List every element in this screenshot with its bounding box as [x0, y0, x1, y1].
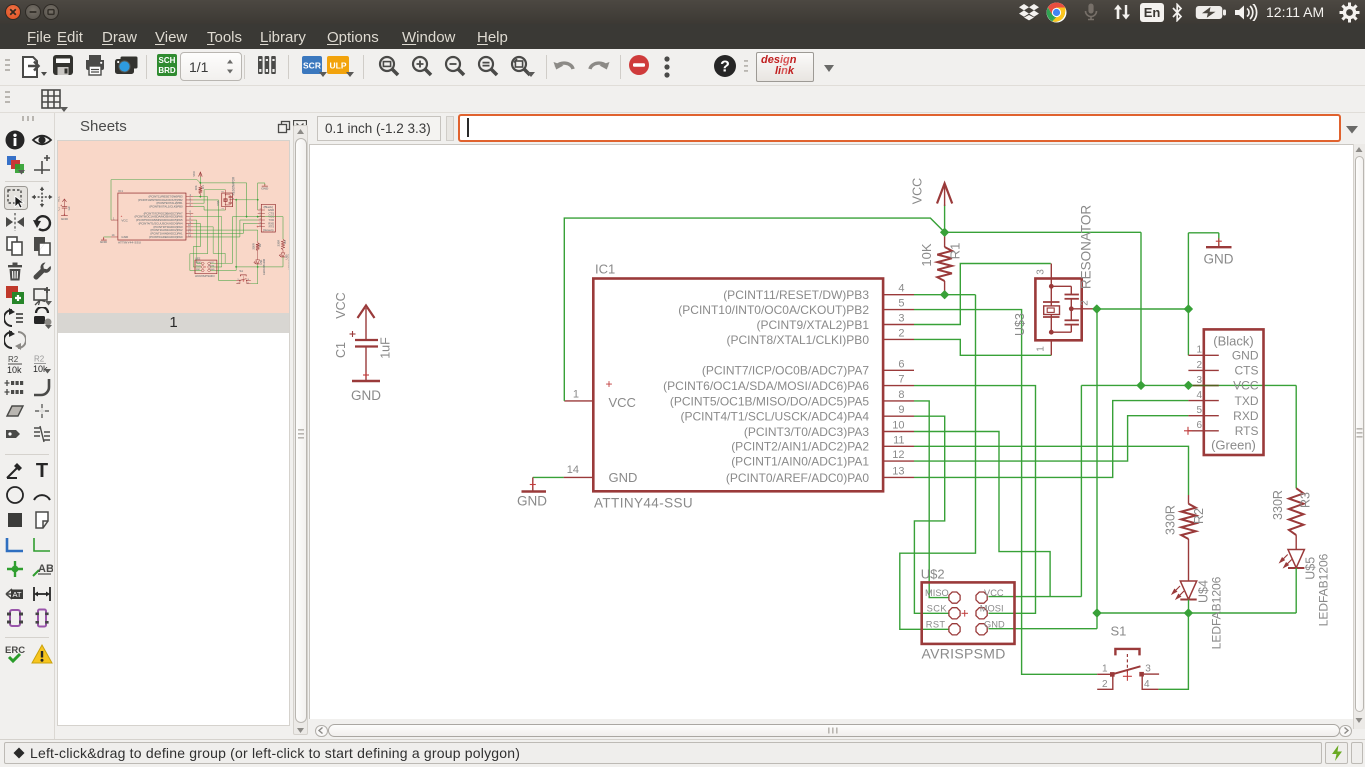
svg-text:10k: 10k	[7, 365, 22, 375]
svg-text:R2: R2	[8, 355, 19, 364]
svg-text:T: T	[36, 460, 48, 481]
svg-text:R2: R2	[34, 354, 45, 363]
svg-text:SCR: SCR	[303, 61, 321, 71]
svg-text:AT: AT	[12, 590, 21, 599]
svg-text:SCH: SCH	[159, 56, 176, 65]
svg-text:BRD: BRD	[158, 66, 176, 75]
svg-text:AB: AB	[38, 563, 53, 575]
svg-text:?: ?	[720, 59, 730, 76]
svg-text:ULP: ULP	[330, 61, 347, 71]
svg-text:ERC: ERC	[5, 645, 25, 656]
